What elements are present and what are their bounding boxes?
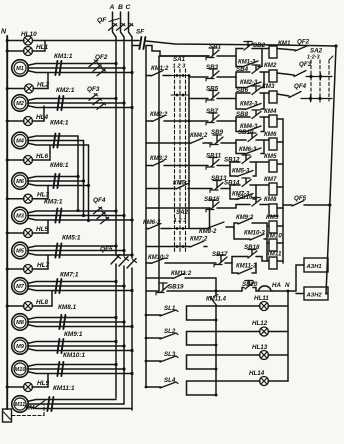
lamp HL5 — [7, 232, 24, 234]
svg-text:КМ5-3: КМ5-3 — [232, 169, 250, 175]
svg-text:АЗН2: АЗН2 — [306, 293, 323, 299]
svg-text:SB4: SB4 — [236, 66, 249, 73]
wire KM4 to QF5 bus — [277, 118, 283, 120]
motor M3 + contact KM3:1 — [12, 207, 29, 224]
svg-text:М1: М1 — [16, 66, 24, 72]
svg-text:N: N — [285, 282, 290, 289]
svg-text:HL8: HL8 — [36, 299, 49, 306]
svg-text:SF: SF — [136, 29, 145, 36]
svg-text:КМ8.1: КМ8.1 — [58, 304, 77, 311]
svg-text:КМ4: КМ4 — [264, 108, 277, 115]
svg-text:QF4: QF4 — [93, 197, 106, 204]
svg-text:М10: М10 — [15, 367, 27, 373]
svg-text:SB5: SB5 — [206, 86, 219, 93]
phase line C — [129, 12, 133, 258]
svg-text:SB11: SB11 — [206, 153, 222, 160]
svg-text:QF5: QF5 — [294, 195, 307, 202]
svg-text:КМ5: КМ5 — [264, 153, 277, 160]
lamp HL9 — [7, 386, 24, 388]
svg-text:HL14: HL14 — [249, 370, 265, 377]
control rail mid — [158, 56, 160, 291]
lamp HL8 — [7, 305, 24, 307]
svg-text:QF5: QF5 — [100, 246, 113, 253]
svg-text:SB6: SB6 — [236, 87, 249, 94]
row SB5 SB6 KM3-3 — [189, 98, 208, 100]
motor M4 + contact KM4:1 — [12, 132, 29, 149]
svg-text:C: C — [126, 4, 131, 11]
svg-text:SB1: SB1 — [209, 44, 222, 51]
wire rung8 drop — [209, 208, 211, 227]
lamp HL1 — [7, 50, 24, 52]
motor M5 + contact KM5:1 — [12, 242, 29, 259]
svg-text:QF2: QF2 — [297, 39, 310, 46]
svg-text:КМ10:1: КМ10:1 — [63, 352, 85, 359]
svg-text:КМ2: КМ2 — [264, 62, 277, 69]
svg-text:М8: М8 — [16, 320, 25, 326]
svg-text:SB8: SB8 — [236, 111, 249, 118]
wire A3N bracket — [296, 265, 304, 291]
svg-text:КМ7:2: КМ7:2 — [190, 237, 208, 243]
svg-text:КМ8-2: КМ8-2 — [199, 229, 217, 235]
svg-text:КМ9:1: КМ9:1 — [64, 331, 83, 338]
wire rung1 — [160, 55, 209, 57]
svg-text:КМ7: КМ7 — [264, 176, 277, 183]
lamp HL4 — [7, 120, 24, 122]
motor M9 + contact KM9:1 — [12, 338, 29, 355]
lamp HL2 — [7, 88, 25, 90]
svg-text:1·2·3: 1·2·3 — [307, 55, 320, 61]
svg-text:SB3: SB3 — [206, 64, 219, 71]
svg-text:М11: М11 — [15, 402, 25, 408]
svg-text:SA2: SA2 — [176, 209, 189, 216]
svg-text:КМ11:1: КМ11:1 — [53, 385, 75, 392]
row SB9 SB10 KM6-3 — [209, 142, 212, 144]
svg-text:SB16: SB16 — [237, 194, 253, 201]
row SB3 SB4 KM2-3 — [189, 76, 208, 78]
module A3N1 — [304, 258, 328, 272]
svg-text:КМ6-3: КМ6-3 — [239, 147, 257, 153]
svg-text:КМ3:1: КМ3:1 — [44, 199, 63, 206]
svg-text:SA1: SA1 — [173, 56, 186, 63]
N bus — [6, 36, 8, 409]
svg-text:A: A — [109, 4, 115, 11]
svg-text:B: B — [118, 4, 123, 11]
motor M1 + contact KM1:1 — [12, 60, 29, 77]
svg-text:SB9: SB9 — [211, 129, 224, 136]
SA2 tick — [171, 246, 189, 248]
svg-text:HL6: HL6 — [36, 153, 49, 160]
row SB11 SB12 KM5-3 — [189, 165, 208, 167]
svg-text:М5: М5 — [16, 249, 25, 255]
lamp HL7 — [7, 268, 24, 270]
motor M2 + contact KM2:1 — [12, 95, 29, 112]
svg-text:М2: М2 — [16, 101, 25, 107]
module A3N2 — [304, 287, 328, 300]
SA1 tick — [171, 94, 189, 96]
motor M8 + contact KM8:1 — [12, 314, 29, 331]
svg-text:КМ4:1: КМ4:1 — [50, 120, 69, 127]
svg-text:М3: М3 — [16, 214, 25, 220]
svg-text:КМ11-3: КМ11-3 — [236, 264, 257, 270]
motor M10 + contact KM10:1 — [12, 361, 29, 378]
svg-text:HL1: HL1 — [36, 44, 49, 51]
svg-text:КМ1: КМ1 — [278, 40, 291, 47]
wire rung2 riser — [188, 76, 190, 229]
svg-text:HL10: HL10 — [21, 31, 37, 38]
svg-text:КМ7:1: КМ7:1 — [60, 272, 79, 279]
svg-text:М6: М6 — [16, 179, 25, 185]
phase line B — [121, 12, 125, 256]
svg-text:QF4: QF4 — [294, 83, 307, 90]
wire rung9 — [189, 228, 210, 230]
svg-text:SB12: SB12 — [224, 157, 240, 164]
svg-text:НА: НА — [272, 282, 281, 289]
lamp HL10 — [7, 40, 24, 42]
svg-text:М9: М9 — [16, 344, 25, 350]
svg-text:КМ1:1: КМ1:1 — [54, 53, 73, 60]
svg-text:QF3: QF3 — [87, 86, 100, 93]
svg-text:КМ3: КМ3 — [262, 83, 275, 90]
thermal relay KK — [3, 409, 12, 422]
svg-text:HL5: HL5 — [36, 226, 49, 233]
svg-text:М7: М7 — [16, 284, 25, 290]
motor M11 + contact KM11:1 — [12, 396, 29, 413]
svg-text:SA2: SA2 — [310, 48, 323, 55]
row SB15 SB16 — [146, 207, 210, 209]
svg-text:QF: QF — [97, 17, 107, 24]
svg-text:SB19: SB19 — [168, 284, 184, 291]
motor M6 + contact KM6:1 — [12, 173, 29, 190]
row SB7 SB8 KM4-3 — [189, 120, 208, 122]
SA1 tick — [171, 75, 189, 77]
coil bracket left — [267, 223, 269, 261]
svg-text:HL4: HL4 — [36, 114, 49, 121]
svg-text:КМ3:2: КМ3:2 — [150, 156, 168, 162]
wire SL4 to lamp — [187, 380, 261, 382]
svg-text:QF3: QF3 — [299, 61, 312, 68]
svg-text:1 2 3: 1 2 3 — [174, 218, 188, 224]
motor M7 + contact KM7:1 — [12, 278, 29, 295]
svg-text:SB7: SB7 — [206, 108, 219, 115]
phase line A — [113, 12, 117, 254]
svg-text:КМ2:1: КМ2:1 — [56, 87, 75, 94]
wire SL3 to lamp — [187, 354, 261, 356]
svg-text:КМ4:2: КМ4:2 — [190, 133, 208, 139]
svg-text:АЗН1: АЗН1 — [306, 264, 322, 270]
lamp HL3 — [7, 198, 24, 200]
wire SL2 to lamp — [187, 331, 261, 333]
svg-text:КМ8: КМ8 — [264, 196, 277, 203]
wire M4 feeders — [77, 136, 79, 211]
svg-text:КМ11.4: КМ11.4 — [206, 297, 227, 303]
control rail right — [326, 46, 336, 294]
svg-text:КМ1:2: КМ1:2 — [151, 66, 169, 72]
svg-text:КМ6:1: КМ6:1 — [50, 162, 69, 169]
svg-text:КМ9: КМ9 — [266, 214, 279, 221]
lamp HL6 — [7, 159, 24, 161]
svg-text:SB15: SB15 — [204, 196, 220, 203]
svg-text:HL11: HL11 — [254, 295, 269, 302]
SA2 tick — [171, 228, 189, 230]
wire — [33, 40, 132, 42]
row SB13 SB14 KM7-3 — [206, 188, 212, 190]
wire SL1 to lamp — [187, 305, 261, 307]
lamp rail right — [287, 291, 289, 381]
svg-text:КМ6: КМ6 — [264, 131, 277, 138]
svg-text:КМ10-3: КМ10-3 — [244, 231, 265, 237]
svg-text:HL12: HL12 — [252, 320, 268, 327]
svg-text:КМ5:1: КМ5:1 — [62, 235, 81, 242]
svg-text:HL13: HL13 — [252, 344, 268, 351]
svg-text:КМ3-3: КМ3-3 — [240, 102, 258, 108]
svg-text:SB10: SB10 — [238, 129, 254, 136]
svg-text:КМ2:2: КМ2:2 — [150, 112, 168, 118]
svg-text:КМ2-3: КМ2-3 — [240, 80, 258, 86]
svg-text:М4: М4 — [16, 139, 25, 145]
svg-text:SB14: SB14 — [224, 180, 240, 187]
svg-text:КМ: КМ — [26, 405, 36, 412]
control rail left — [145, 46, 147, 388]
